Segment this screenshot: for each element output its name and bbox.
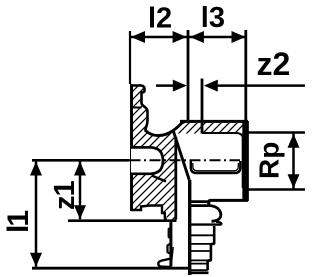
sleeve cap upper line	[189, 200, 209, 203]
sleeve cap flare (right part)	[208, 205, 220, 221]
dimension line l2/l3 horizontal	[131, 36, 246, 39]
thread tray outline (lower half, external view)	[191, 161, 241, 173]
body: inner wall vertical x=175.8	[174, 137, 177, 220]
dimension line Rp vertical	[292, 134, 295, 189]
nub outline bottom-left	[131, 206, 167, 220]
arrow z1 down	[74, 205, 86, 219]
barb/sleeve right profile steps	[208, 226, 215, 270]
arrow l2 right	[173, 31, 187, 43]
sleeve cap shoulder line	[189, 204, 209, 207]
Rp bottom extension line	[247, 188, 305, 191]
sleeve left edge rib bumps	[168, 244, 171, 255]
sleeve inner thin line	[172, 247, 174, 263]
sleeve cap lip	[216, 222, 222, 225]
extension line right (l3)	[244, 30, 247, 121]
dimension line z1 vertical	[79, 162, 82, 220]
svg-text:z2: z2	[257, 46, 291, 82]
body: flange/rib profile	[130, 86, 148, 131]
arrow l1 up	[30, 162, 42, 176]
z1 bottom reference line	[68, 219, 177, 222]
arrow l3 left	[190, 31, 204, 43]
extension line left (l2)	[129, 31, 131, 84]
barb bottom edge (double)	[191, 269, 208, 271]
sleeve foot flare	[158, 259, 171, 267]
centreline dash-dot horizontal	[130, 159, 241, 161]
barb divider line 4 (double)	[191, 259, 211, 261]
arrow Rp down	[288, 174, 300, 188]
barb divider line 3	[191, 250, 211, 252]
dimension line l1 vertical	[35, 162, 38, 267]
svg-text:Rp: Rp	[254, 142, 285, 179]
body: flange left edge	[130, 84, 133, 211]
arrow l1 down	[30, 253, 42, 267]
extension line middle (l2/l3)	[187, 30, 190, 121]
hatching thread band	[164, 110, 266, 140]
arrow Rp up	[288, 134, 300, 148]
barb divider line 1	[191, 234, 214, 236]
svg-text:l3: l3	[201, 2, 225, 34]
socket right face (thick)	[242, 121, 249, 201]
socket top edge	[180, 120, 248, 123]
body: rib separator line	[132, 107, 142, 109]
arrow l2 left	[131, 31, 145, 43]
dimension z2 left line with right-pointing arrow	[156, 84, 173, 87]
arrow z1 up	[74, 162, 86, 176]
sleeve cap underside line	[190, 223, 222, 225]
thread tray inner bottom line	[193, 163, 239, 171]
left reference line (centreline level, solid part)	[32, 159, 130, 162]
l1 bottom reference line	[32, 267, 190, 270]
svg-text:l2: l2	[148, 3, 172, 35]
svg-text:l1: l1	[2, 211, 35, 233]
body: diagonal from S-curve to barb edge	[173, 131, 189, 180]
body: dome outer edge line	[152, 176, 166, 182]
body: S-curve outline from flange to socket top	[145, 121, 186, 135]
socket thread inner line	[202, 133, 244, 140]
body: dome bore (white channel from left)	[131, 147, 163, 173]
socket bottom edge	[209, 200, 248, 205]
socket inner right wall line	[242, 138, 244, 188]
barb insert left edge	[188, 180, 191, 275]
press sleeve left edge (external view)	[169, 220, 172, 267]
dimension z2 right line with left-pointing arrow	[217, 84, 305, 87]
hatching left column	[0, 65, 320, 240]
z2 stub extension line	[201, 79, 204, 134]
arrow l3 right	[232, 31, 246, 43]
Rp top extension line	[247, 131, 305, 134]
barb divider line 2	[191, 243, 212, 245]
